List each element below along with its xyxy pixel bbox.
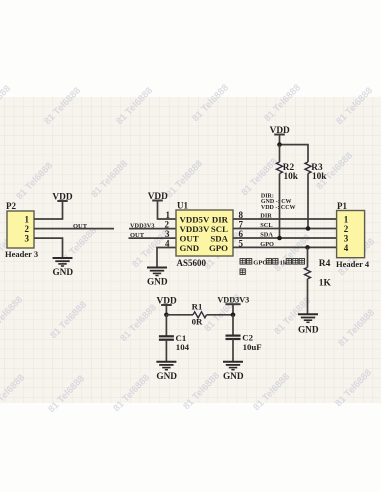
svg-text:GND: GND xyxy=(298,325,319,335)
wire R1 to VDD3V3 node xyxy=(207,314,234,316)
node junction R2-SDA xyxy=(277,236,282,241)
svg-text:VDD3V: VDD3V xyxy=(180,224,210,234)
wire R2 to SDA xyxy=(279,174,281,239)
wire P2 pin1 to VDD xyxy=(34,201,63,219)
wire VDD stem to junction xyxy=(279,135,281,145)
svg-text:OUT: OUT xyxy=(130,232,145,239)
svg-text:GPO: GPO xyxy=(209,243,228,253)
svg-text:1: 1 xyxy=(344,214,349,224)
svg-text:1: 1 xyxy=(25,215,30,225)
power VDD3V3 label xyxy=(217,296,249,305)
svg-text:VDD: VDD xyxy=(52,192,72,202)
wire C1 to GND xyxy=(165,340,167,362)
svg-text:R1: R1 xyxy=(192,302,203,312)
svg-text:OUT: OUT xyxy=(73,223,88,230)
svg-text:GPO: GPO xyxy=(253,259,267,266)
note GPO chinese annotation line2 xyxy=(240,269,245,275)
svg-text:DIR: DIR xyxy=(212,215,229,225)
wire P2 pin2 OUT net xyxy=(34,228,114,230)
svg-text:Header 4: Header 4 xyxy=(336,259,370,269)
note GPO chinese annotation line1 xyxy=(240,259,305,267)
svg-text:1: 1 xyxy=(166,210,171,220)
power VDD symbol (above U1) xyxy=(148,192,168,202)
wire node to C2 xyxy=(232,315,234,335)
wire P2 pin3 to GND xyxy=(34,238,63,257)
node junction R3-SCL xyxy=(306,226,311,231)
svg-text:GPO: GPO xyxy=(260,241,274,248)
svg-text:VDD -: CCW: VDD -: CCW xyxy=(261,205,296,211)
svg-text:2: 2 xyxy=(25,224,30,234)
header P2 box xyxy=(7,211,34,248)
svg-text:4: 4 xyxy=(165,238,170,248)
node junction VDD-R1-C1 xyxy=(164,313,169,318)
svg-text:10k: 10k xyxy=(312,172,327,182)
wire VDD to U1 pin1 xyxy=(158,201,177,220)
resistor R2 xyxy=(277,162,299,182)
node junction VDD/R2/R3 xyxy=(277,142,282,147)
svg-text:2: 2 xyxy=(344,224,349,234)
sheet background with grid xyxy=(0,97,381,403)
wire node to R1 xyxy=(166,314,193,316)
svg-text:AS5600: AS5600 xyxy=(177,258,207,268)
svg-text:VDD3V3: VDD3V3 xyxy=(130,223,155,230)
svg-text:P2: P2 xyxy=(6,201,16,211)
wire VDD stem to node xyxy=(165,305,167,315)
watermark pattern xyxy=(0,82,377,415)
op chip U1 body xyxy=(176,210,233,256)
wire VDD3V3 stem xyxy=(232,304,234,315)
resistor R3 xyxy=(305,162,327,182)
svg-text:10k: 10k xyxy=(284,172,299,182)
U1 pin numbers 1-4 xyxy=(165,210,171,248)
svg-text:P1: P1 xyxy=(337,201,347,211)
svg-text:GND: GND xyxy=(52,268,73,278)
svg-text:SCL: SCL xyxy=(260,222,272,229)
power VDD symbol (left) xyxy=(52,192,72,202)
wire SDA net xyxy=(233,237,337,239)
svg-text:104: 104 xyxy=(176,342,190,352)
svg-text:SCL: SCL xyxy=(211,224,228,234)
wire U1 pin3 OUT xyxy=(129,237,177,239)
wire GPO to R4 xyxy=(307,247,309,267)
U1 pin names right column xyxy=(209,215,229,254)
power VDD symbol (above C1) xyxy=(157,297,177,307)
svg-text:U1: U1 xyxy=(177,201,188,211)
svg-text:VDD3V3: VDD3V3 xyxy=(217,296,249,305)
capacitor C2 xyxy=(226,332,262,352)
U1 pin numbers 8-5 xyxy=(239,210,244,248)
svg-text:4: 4 xyxy=(344,243,349,253)
node junction VDD3V3-C2 xyxy=(231,313,236,318)
wire U1 pin2 VDD3V3 xyxy=(129,228,176,230)
U1 pin names left column xyxy=(180,215,210,254)
wire SCL net xyxy=(233,228,337,230)
P1 pin numbers xyxy=(344,214,349,253)
svg-text:2: 2 xyxy=(165,220,170,230)
svg-text:VDD5V: VDD5V xyxy=(180,215,210,225)
node junction R4-GPO xyxy=(305,245,310,250)
ground symbol (R4) xyxy=(298,314,318,322)
svg-text:GND: GND xyxy=(156,372,177,382)
resistor R1 xyxy=(192,302,207,327)
header P1 box xyxy=(337,211,365,258)
svg-text:3: 3 xyxy=(344,233,349,243)
svg-text:3: 3 xyxy=(25,234,30,244)
wire C2 to GND xyxy=(232,339,234,361)
resistor R4 xyxy=(305,259,332,289)
wire U1 pin4 to GND xyxy=(157,248,176,268)
wire R3 to SCL xyxy=(307,174,309,229)
svg-text:1K: 1K xyxy=(319,279,332,289)
svg-text:DIR: DIR xyxy=(260,213,272,220)
svg-text:GND: GND xyxy=(147,278,168,288)
ground symbol (U1) xyxy=(147,268,167,276)
ground symbol (C2) xyxy=(223,362,243,370)
wire node to C1 xyxy=(165,315,167,336)
ground symbol (C1) xyxy=(156,362,176,370)
svg-text:R4: R4 xyxy=(319,259,331,269)
svg-text:Header 3: Header 3 xyxy=(5,249,38,259)
svg-text:0R: 0R xyxy=(192,317,203,327)
wire GPO net xyxy=(233,246,337,248)
svg-text:GND: GND xyxy=(223,372,244,382)
svg-text:GND: GND xyxy=(180,243,200,253)
svg-text:C2: C2 xyxy=(242,332,253,342)
svg-text:10uF: 10uF xyxy=(243,342,262,352)
ground symbol (P2) xyxy=(53,258,73,266)
note DIR direction text xyxy=(261,193,296,211)
wire R4 to GND xyxy=(307,279,309,314)
svg-text:SDA: SDA xyxy=(260,232,273,239)
power VDD symbol (top right) xyxy=(270,126,290,136)
capacitor C1 xyxy=(159,333,190,352)
svg-text:SDA: SDA xyxy=(210,234,228,244)
svg-text:OUT: OUT xyxy=(180,234,199,244)
wire DIR net xyxy=(233,218,337,220)
wire VDD to R2 xyxy=(279,145,281,162)
wire branch to R3 xyxy=(280,145,309,162)
